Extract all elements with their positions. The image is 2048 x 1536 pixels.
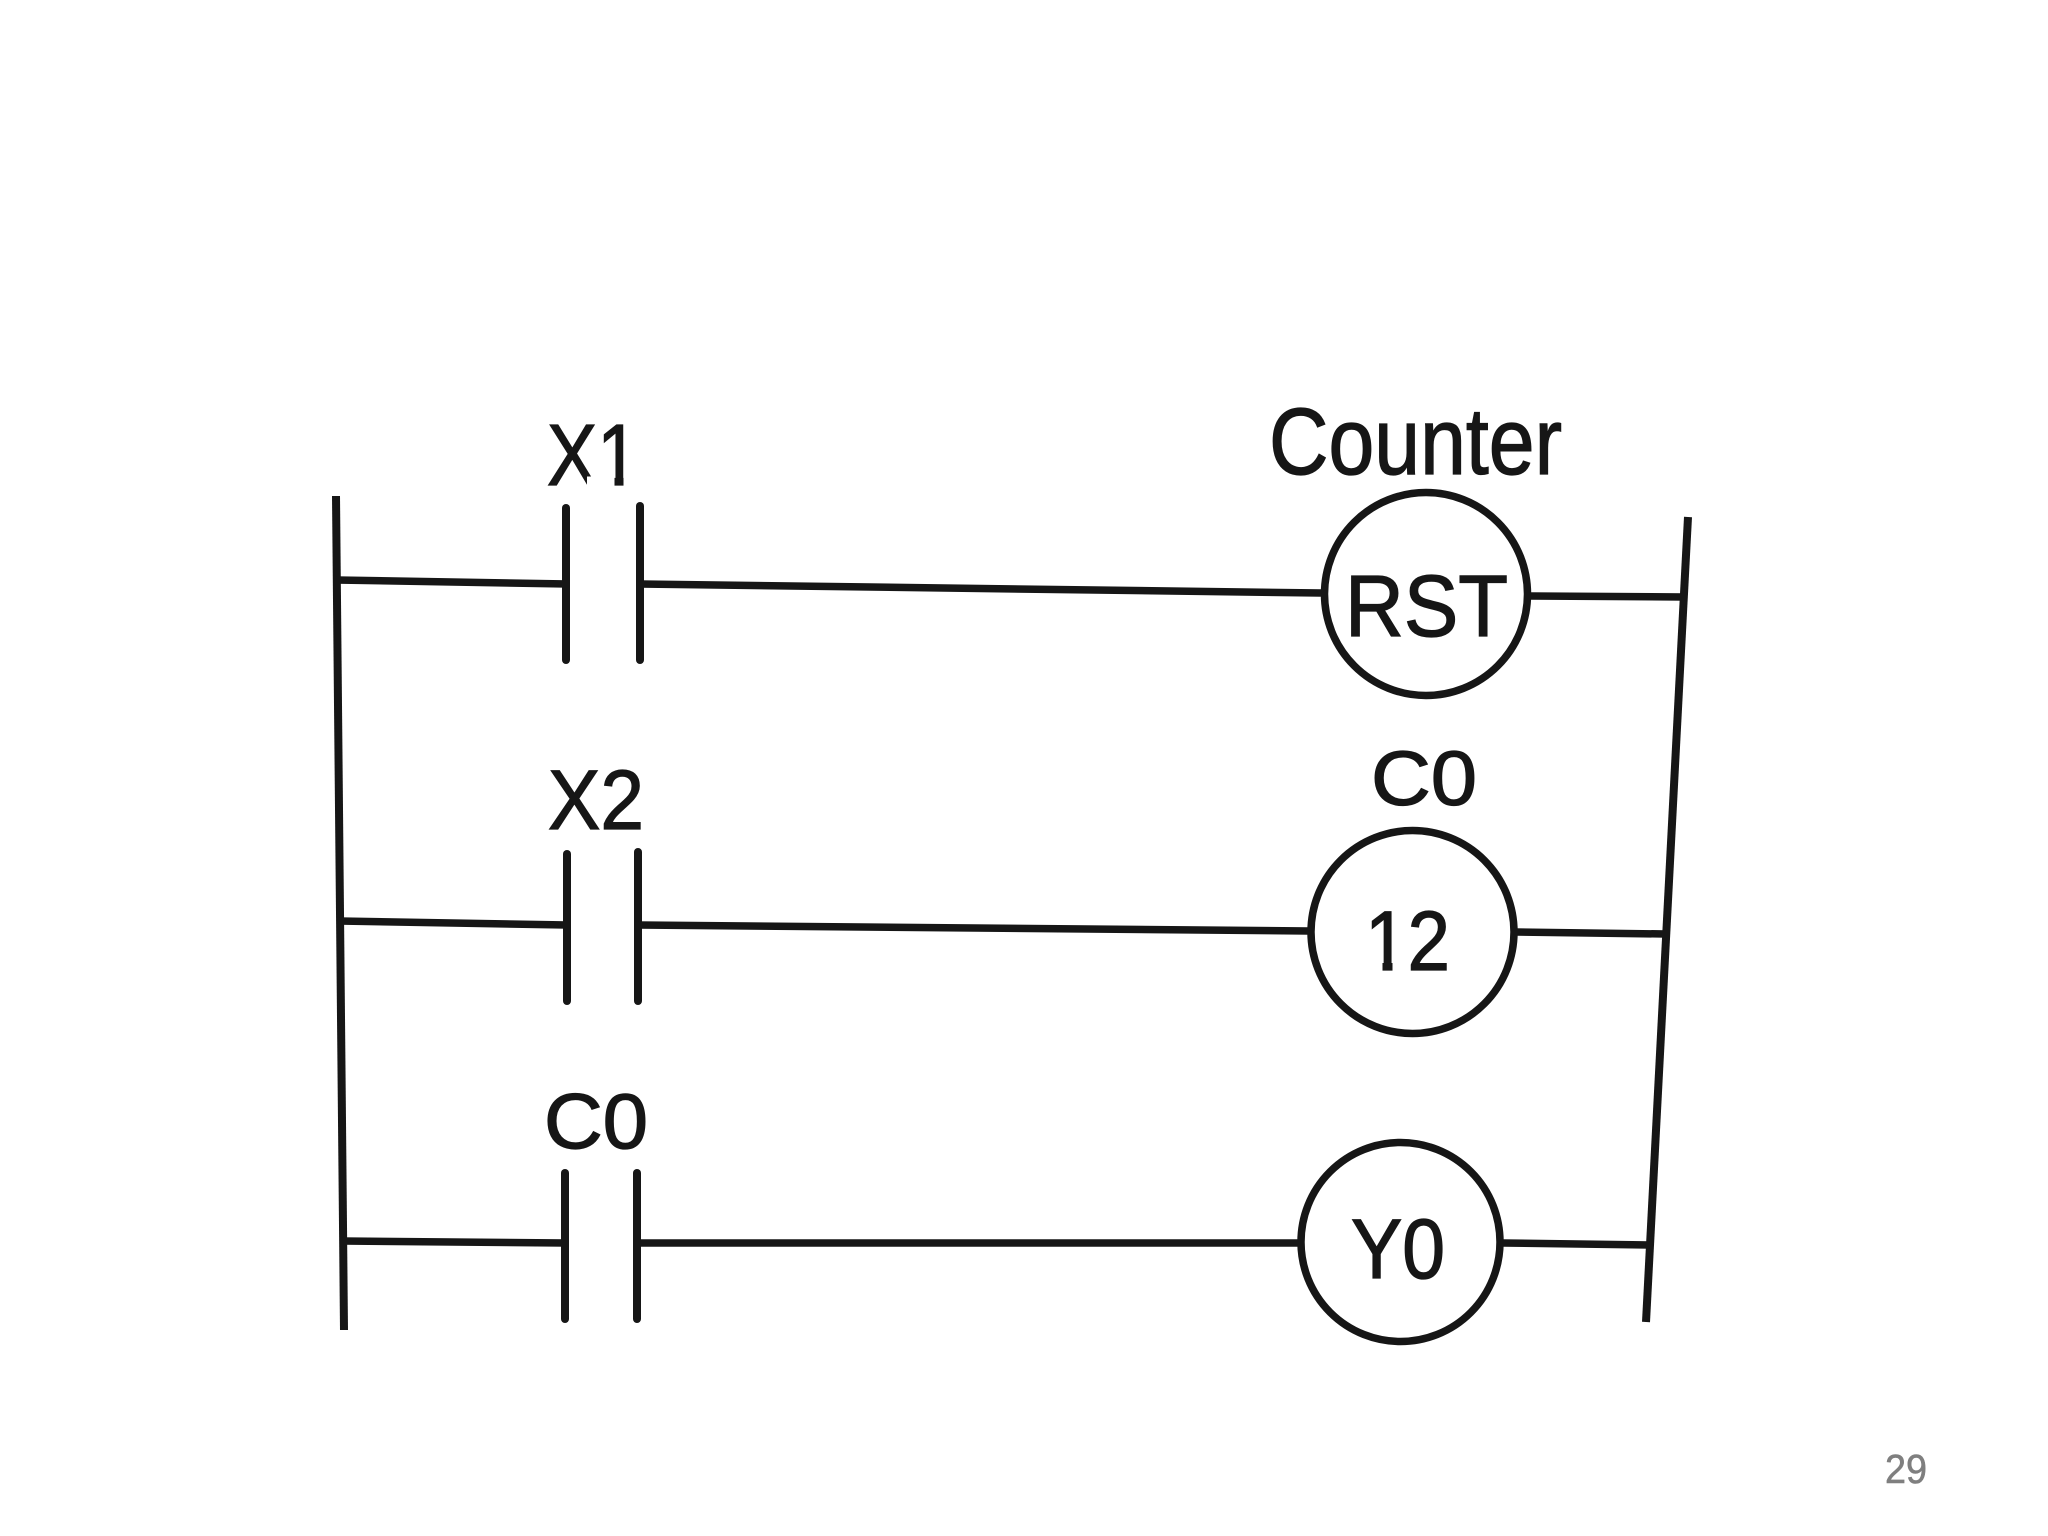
- wire rung3 left segment: [342, 1241, 565, 1243]
- svg-text:X1: X1: [547, 407, 639, 504]
- contact X1: [566, 506, 640, 660]
- wire rung3 right segment: [1503, 1243, 1650, 1245]
- svg-text:Y0: Y0: [1351, 1202, 1445, 1296]
- svg-text:C0: C0: [544, 1077, 648, 1165]
- svg-text:X2: X2: [548, 753, 644, 847]
- coil C0 counter: [1311, 831, 1514, 1034]
- wire rung3 middle segment: [637, 1239, 1298, 1247]
- svg-text:12: 12: [1365, 894, 1450, 988]
- wire rung2 middle segment: [638, 925, 1309, 931]
- right power rail: [1646, 517, 1688, 1322]
- wire rung1 middle segment: [640, 584, 1321, 593]
- wire rung2 right segment: [1516, 932, 1666, 934]
- contact C0: [565, 1173, 637, 1319]
- left power rail: [336, 496, 344, 1330]
- svg-text:Counter: Counter: [1269, 389, 1562, 495]
- coil Y0 output: [1301, 1143, 1500, 1342]
- wire rung2 left segment: [339, 921, 567, 925]
- svg-text:RST: RST: [1345, 558, 1508, 655]
- coil RST (Counter reset): [1325, 493, 1528, 696]
- wire rung1 left segment: [336, 580, 568, 584]
- svg-text:29: 29: [1885, 1446, 1927, 1492]
- wire rung1 right segment: [1531, 596, 1685, 597]
- svg-text:C0: C0: [1371, 736, 1477, 822]
- contact X2: [567, 852, 638, 1001]
